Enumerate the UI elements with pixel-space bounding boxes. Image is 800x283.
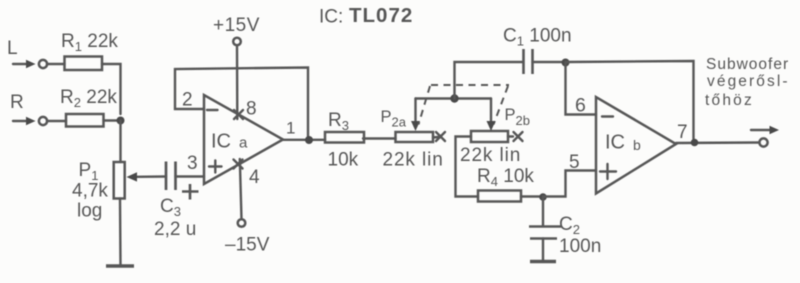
svg-text:22k lin: 22k lin <box>383 149 444 170</box>
node input junction <box>117 117 125 125</box>
input terminal R <box>10 92 47 125</box>
svg-text:C1 100n: C1 100n <box>503 26 572 49</box>
svg-text:R2 22k: R2 22k <box>60 87 117 110</box>
svg-text:10k: 10k <box>328 150 359 171</box>
op-amp U2 IC b <box>596 97 676 194</box>
wire C1 to feedback node <box>533 61 566 63</box>
svg-text:8: 8 <box>246 99 257 120</box>
svg-text:IC: IC <box>211 131 231 153</box>
svg-text:R3: R3 <box>328 110 349 133</box>
wire R4 to node <box>521 195 540 197</box>
input terminal L <box>7 38 47 68</box>
svg-text:L: L <box>7 38 18 59</box>
+15V supply <box>213 15 260 119</box>
svg-text:C2: C2 <box>559 214 580 237</box>
node C1 / pin6 <box>562 59 570 67</box>
svg-text:IC:: IC: <box>319 7 343 28</box>
svg-text:P2a: P2a <box>381 108 407 130</box>
wire output IC a <box>283 139 325 141</box>
svg-text:IC: IC <box>605 132 625 154</box>
capacitor C3 2.2u <box>154 162 199 241</box>
svg-text:6: 6 <box>575 95 586 117</box>
resistor R1 22k <box>61 31 118 70</box>
ground (C2) <box>530 260 556 263</box>
wire R1 to input node <box>102 64 121 114</box>
node IC a output <box>305 136 313 144</box>
svg-text:+15V: +15V <box>213 15 260 36</box>
svg-text:a: a <box>239 135 248 152</box>
wire pin6 <box>566 63 597 115</box>
resistor R4 10k <box>477 166 534 202</box>
svg-text:b: b <box>633 137 641 153</box>
output terminal <box>751 126 779 147</box>
potentiometer P1 4.7k log <box>72 160 166 222</box>
svg-text:4: 4 <box>249 167 260 188</box>
svg-text:R1 22k: R1 22k <box>61 31 118 54</box>
svg-text:TL072: TL072 <box>349 4 413 27</box>
svg-text:R: R <box>10 92 24 113</box>
svg-text:7: 7 <box>677 122 688 143</box>
svg-text:2: 2 <box>182 90 193 111</box>
svg-text:C3: C3 <box>160 196 181 219</box>
-15V supply <box>225 159 270 256</box>
wire R3 to P2a <box>363 137 396 139</box>
output label Subwoofer <box>705 56 790 109</box>
wire feedback IC a (pin2 to output) <box>175 68 308 138</box>
svg-text:Subwoofer: Subwoofer <box>706 56 789 73</box>
svg-text:1: 1 <box>286 119 295 138</box>
wire wiper junction arms <box>416 97 492 99</box>
wire R to R2 <box>47 120 66 122</box>
svg-text:100n: 100n <box>559 236 601 257</box>
svg-text:–15V: –15V <box>225 235 270 256</box>
gang coupling dashed lines <box>419 85 510 125</box>
capacitor C1 100n <box>503 26 572 75</box>
title IC: TL072 <box>319 4 413 28</box>
svg-text:R4 10k: R4 10k <box>477 166 534 189</box>
wire node to pin 5 <box>543 171 596 197</box>
wire P2b left terminal down to R4 <box>456 137 479 197</box>
svg-text:22k lin: 22k lin <box>460 145 521 166</box>
wire node down to P1 <box>119 121 121 163</box>
wire L to R1 <box>47 63 65 65</box>
svg-text:3: 3 <box>187 153 198 174</box>
resistor R3 10k <box>325 110 364 171</box>
node output <box>691 139 699 147</box>
node wiper junction <box>450 94 458 102</box>
svg-text:5: 5 <box>569 152 580 173</box>
svg-text:log: log <box>77 201 102 222</box>
svg-text:tőhöz: tőhöz <box>705 92 754 109</box>
wire IC b output <box>676 141 760 144</box>
svg-text:P2b: P2b <box>505 106 530 128</box>
potentiometer P2a 22k lin <box>381 99 446 171</box>
wire P1 to ground <box>119 199 122 266</box>
op-amp U1 IC a <box>204 95 283 184</box>
resistor R2 22k <box>60 87 117 127</box>
potentiometer P2b 22k lin <box>460 99 530 167</box>
wire junction up to C1 line <box>455 62 524 99</box>
wire feedback top to output <box>566 61 694 139</box>
wire R2 to node <box>104 119 118 121</box>
wire C3 to pin 3 <box>176 175 205 177</box>
svg-text:2,2 u: 2,2 u <box>154 219 196 240</box>
svg-text:4,7k: 4,7k <box>72 181 108 202</box>
node R4/C2/pin5 <box>539 193 547 201</box>
ground (P1) <box>106 264 134 267</box>
svg-text:végerősl-: végerősl- <box>707 73 790 90</box>
capacitor C2 100n <box>529 197 601 260</box>
